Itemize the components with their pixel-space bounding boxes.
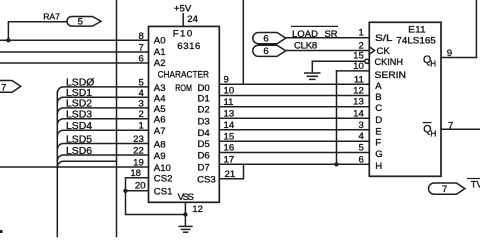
node CS1 junction — [123, 189, 127, 193]
svg-text:6: 6 — [138, 54, 143, 65]
svg-text:CHARACTER: CHARACTER — [158, 69, 209, 80]
svg-text:CS2: CS2 — [154, 174, 173, 185]
wire D5 to F — [219, 140, 369, 142]
svg-text:5: 5 — [78, 17, 83, 28]
wire QH output — [441, 57, 476, 59]
node VSS junction — [183, 212, 187, 216]
svg-text:LSD4: LSD4 — [66, 121, 92, 132]
svg-text:74LS165: 74LS165 — [396, 35, 435, 46]
svg-text:B: B — [375, 92, 381, 103]
svg-text:LSD1: LSD1 — [66, 88, 92, 99]
wire A2 — [0, 62, 149, 64]
svg-text:C: C — [375, 103, 382, 114]
svg-text:LOAD: LOAD — [292, 29, 318, 40]
svg-text:3: 3 — [138, 98, 143, 109]
svg-text:6316: 6316 — [177, 41, 200, 52]
svg-text:A: A — [375, 81, 382, 92]
svg-text:5: 5 — [358, 143, 363, 154]
svg-text:D6: D6 — [198, 151, 210, 162]
ROM chip U-F10 outline — [149, 26, 220, 202]
CKINH inverter bubble — [365, 59, 369, 63]
svg-text:CKINH: CKINH — [375, 57, 404, 68]
wire LSD3 — [57, 119, 148, 125]
overline LOAD SR — [292, 25, 338, 27]
wire A1 — [0, 51, 149, 53]
svg-text:15: 15 — [224, 131, 235, 142]
svg-text:LSD3: LSD3 — [66, 110, 92, 121]
svg-text:15: 15 — [353, 50, 364, 61]
wire D3 to D — [219, 117, 369, 119]
ground symbol G1 — [305, 73, 320, 79]
svg-text:7: 7 — [138, 43, 143, 54]
svg-text:TV: TV — [471, 179, 480, 190]
wire D0 to A — [219, 83, 369, 85]
svg-text:VSS: VSS — [178, 192, 194, 203]
svg-text:4: 4 — [138, 88, 144, 99]
svg-text:RA7: RA7 — [43, 11, 60, 21]
svg-text:D4: D4 — [198, 128, 211, 139]
svg-text:5: 5 — [138, 77, 143, 88]
svg-text:H: H — [375, 161, 382, 172]
svg-text:G: G — [375, 149, 382, 160]
svg-text:17: 17 — [224, 155, 235, 166]
wire LSD2 — [57, 108, 148, 114]
wire CS2 — [126, 178, 149, 191]
svg-text:CS1: CS1 — [154, 186, 173, 197]
tag RA7 pointer — [67, 17, 101, 27]
svg-text:E: E — [375, 126, 381, 137]
svg-text:3: 3 — [358, 120, 363, 131]
svg-text:6: 6 — [358, 154, 363, 165]
svg-text:19: 19 — [133, 158, 144, 169]
wire SERIN — [337, 70, 370, 72]
wire QHbar output — [441, 128, 480, 130]
svg-text:2: 2 — [138, 109, 143, 120]
svg-text:6: 6 — [263, 46, 268, 57]
svg-text:D2: D2 — [198, 105, 210, 116]
svg-text:9: 9 — [447, 48, 452, 59]
wire VSS stem — [184, 202, 186, 226]
svg-text:D7: D7 — [198, 162, 210, 173]
svg-text:H: H — [431, 129, 437, 138]
svg-text:SERIN: SERIN — [375, 70, 407, 81]
svg-text:A10: A10 — [154, 163, 171, 174]
svg-text:LSDØ: LSDØ — [66, 78, 94, 89]
svg-text:16: 16 — [224, 143, 235, 154]
scan speck left edge — [0, 230, 3, 233]
wire D7 to H — [219, 163, 369, 165]
svg-text:A9: A9 — [154, 151, 166, 162]
wire CK — [286, 50, 370, 52]
svg-text:7: 7 — [1, 83, 6, 94]
svg-text:14: 14 — [353, 108, 364, 119]
svg-text:A5: A5 — [154, 104, 166, 115]
wire D4 to E — [219, 129, 369, 131]
wire CKINH — [312, 60, 365, 62]
svg-text:D0: D0 — [198, 83, 210, 94]
svg-text:CK: CK — [377, 46, 391, 57]
svg-text:7: 7 — [448, 121, 453, 132]
ground symbol G2 — [179, 226, 192, 232]
svg-text:A2: A2 — [154, 58, 166, 69]
svg-text:12: 12 — [192, 204, 203, 215]
tag LOAD SR pointer — [253, 33, 286, 44]
svg-text:D1: D1 — [198, 94, 210, 105]
svg-text:1: 1 — [138, 121, 143, 132]
wire +5V pin 24 — [182, 14, 184, 27]
wire S/L — [286, 37, 370, 39]
wire CS1 — [126, 190, 149, 192]
wire LSD1 — [57, 97, 148, 103]
svg-text:A8: A8 — [154, 140, 166, 151]
svg-text:CLK8: CLK8 — [294, 41, 317, 52]
wire QH riser to top edge — [475, 0, 477, 58]
svg-text:24: 24 — [187, 14, 198, 25]
wire D1 to B — [219, 95, 369, 97]
tag TV pointer — [429, 183, 465, 194]
svg-text:13: 13 — [353, 97, 364, 108]
wire LSD bus vertical — [56, 93, 58, 237]
clock input triangle — [369, 47, 374, 54]
svg-text:11: 11 — [224, 97, 234, 108]
svg-text:S/L: S/L — [375, 33, 393, 44]
svg-text:LSD6: LSD6 — [66, 146, 92, 157]
overline TV — [468, 178, 480, 180]
svg-text:9: 9 — [224, 75, 229, 86]
svg-text:6: 6 — [263, 34, 268, 45]
svg-text:D5: D5 — [198, 139, 210, 150]
svg-text:A0: A0 — [154, 35, 166, 46]
wire LSD6 — [57, 155, 148, 161]
svg-text:21: 21 — [225, 169, 236, 180]
svg-text:13: 13 — [224, 109, 235, 120]
svg-text:LSD5: LSD5 — [66, 134, 92, 145]
wire A10 — [0, 166, 149, 168]
wire CS1 to ground — [126, 191, 186, 215]
wire RA7 branch — [8, 22, 67, 41]
svg-text:4: 4 — [358, 131, 364, 142]
tag CLK8 pointer — [253, 45, 286, 56]
node RA7 junction — [6, 38, 10, 42]
svg-text:A7: A7 — [154, 126, 166, 137]
wire LSD0 — [57, 87, 148, 93]
node SERIN-H junction — [334, 162, 338, 166]
svg-text:ROM: ROM — [175, 83, 192, 94]
wire D2 to C — [219, 106, 369, 108]
svg-text:+5V: +5V — [174, 4, 192, 15]
svg-text:11: 11 — [354, 74, 364, 85]
wire D6 to G — [219, 152, 369, 154]
wire A0 — [0, 39, 149, 41]
svg-text:CS3: CS3 — [197, 175, 216, 186]
svg-text:H: H — [430, 60, 436, 69]
svg-text:F: F — [375, 138, 381, 149]
svg-text:7: 7 — [442, 184, 447, 195]
svg-text:A4: A4 — [154, 93, 166, 104]
wire SERIN riser — [336, 71, 338, 164]
svg-text:23: 23 — [133, 134, 144, 145]
wire vertical bus V1 — [116, 0, 118, 237]
svg-text:10: 10 — [224, 86, 235, 97]
svg-text:14: 14 — [224, 120, 235, 131]
svg-text:E11: E11 — [408, 25, 426, 36]
svg-text:D3: D3 — [198, 116, 210, 127]
svg-text:8: 8 — [138, 31, 143, 42]
svg-text:A3: A3 — [154, 83, 166, 94]
wire LSD4 — [57, 130, 148, 136]
svg-text:12: 12 — [353, 86, 364, 97]
shift register E11 outline — [369, 22, 441, 176]
wire CKINH ground stem — [311, 61, 313, 71]
svg-text:1: 1 — [358, 28, 363, 39]
wire LSD5 — [57, 144, 148, 150]
svg-text:SR: SR — [325, 29, 338, 40]
svg-text:D: D — [375, 115, 382, 126]
svg-text:A1: A1 — [154, 47, 166, 58]
svg-text:LSD2: LSD2 — [66, 99, 92, 110]
svg-text:18: 18 — [130, 168, 141, 179]
svg-text:F10: F10 — [173, 29, 194, 40]
svg-text:10: 10 — [353, 61, 364, 72]
svg-text:20: 20 — [135, 181, 146, 192]
svg-text:A6: A6 — [154, 115, 166, 126]
wire bus stub to V1 — [57, 161, 116, 167]
tag left edge pointer — [0, 81, 21, 93]
wire D0 riser to top edge — [242, 0, 244, 84]
overline QHbar — [423, 122, 431, 124]
svg-text:22: 22 — [133, 146, 144, 157]
wire CS3 to D7 — [219, 164, 243, 178]
